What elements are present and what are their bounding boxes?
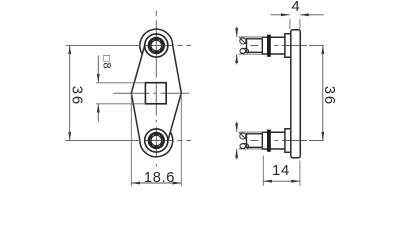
centerline horizontal top hole (145, 45, 192, 47)
extension lines square hole (96, 82, 145, 84)
plate side view (291, 30, 301, 158)
top pin collar (262, 37, 267, 54)
dimension 18.6 bottom (131, 182, 181, 184)
bottom screw head circle (145, 129, 168, 152)
bottom pin boss (285, 129, 291, 152)
svg-text:36: 36 (321, 86, 338, 106)
dimension 36 right (322, 46, 324, 141)
bottom hex socket (148, 132, 165, 149)
top pin shaft (247, 39, 263, 53)
centerline top pin (251, 45, 324, 47)
extension line bottom hole center (66, 140, 141, 142)
extension line top hole center (66, 45, 141, 47)
svg-text:36: 36 (68, 86, 85, 106)
bottom pin shaft (247, 134, 263, 148)
top hex socket (148, 37, 165, 54)
dimension 36 left (69, 46, 71, 141)
square hole 8mm (145, 83, 166, 104)
top pin flange (267, 35, 270, 56)
centerline bottom pin (251, 140, 324, 142)
plate outline left side (131, 46, 144, 141)
svg-text:14: 14 (272, 162, 290, 179)
svg-text:□8: □8 (101, 55, 113, 69)
extension lines diameter 6 bottom (238, 131, 262, 133)
extension lines 14 (262, 156, 264, 186)
extension lines 18.6 (130, 94, 132, 187)
extension lines 4 top (289, 19, 291, 29)
centerline vertical left view (155, 11, 157, 167)
top pin cylinder (270, 37, 285, 54)
bottom pin flange (267, 130, 270, 151)
plate outline bottom arc (140, 132, 173, 157)
dimension 4 (arrows outside) (271, 14, 290, 16)
svg-text:18.6: 18.6 (144, 169, 175, 186)
centerline horizontal middle (113, 92, 189, 94)
bottom pin cylinder (270, 132, 285, 149)
top pin boss (285, 34, 291, 57)
dimension diameter 6 top (arrows outside) (236, 27, 238, 37)
top screw head circle (145, 34, 168, 57)
dimension 14 bottom (263, 180, 300, 182)
extension lines diameter 6 top (238, 36, 262, 38)
plate outline right side (168, 46, 181, 141)
svg-text:⌀6: ⌀6 (236, 132, 251, 152)
dimension diameter 6 bottom (arrows outside) (236, 122, 238, 132)
plate outline top arc (140, 29, 173, 54)
centerline horizontal bottom hole (145, 140, 192, 142)
bottom pin collar (262, 132, 267, 149)
svg-text:⌀6: ⌀6 (236, 37, 251, 57)
svg-text:4: 4 (291, 0, 299, 15)
dimension square 8 arrows outside (97, 55, 99, 82)
